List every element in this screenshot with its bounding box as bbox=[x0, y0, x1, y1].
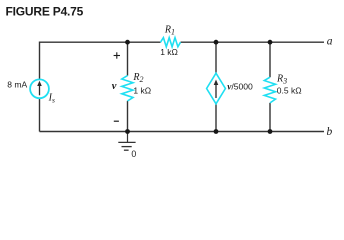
node: junction dot bottom of dependent source branch bbox=[214, 129, 219, 134]
wire: R3 branch upper segment bbox=[269, 42, 271, 77]
dependent current source v/5000 (diamond with up arrow) bbox=[207, 73, 226, 104]
resistor R1 (zigzag in top wire) bbox=[161, 38, 181, 47]
current source Is (8 mA), circle with up arrow bbox=[30, 79, 49, 98]
wire: R2 branch upper segment bbox=[127, 42, 129, 75]
svg-text:FIGURE P4.75: FIGURE P4.75 bbox=[6, 5, 84, 19]
node: junction dot bottom of R2 branch (ground tie) bbox=[125, 129, 130, 134]
label + (voltage polarity plus) bbox=[114, 52, 120, 58]
resistor R2 (vertical zigzag) bbox=[122, 76, 133, 101]
svg-text:v/5000: v/5000 bbox=[227, 81, 253, 92]
wire: top-left segment (top node from left corner to R1) bbox=[40, 42, 161, 131]
svg-text:v: v bbox=[112, 81, 117, 92]
svg-text:Is: Is bbox=[48, 92, 55, 104]
svg-text:1 kΩ: 1 kΩ bbox=[133, 85, 151, 95]
resistor R3 (vertical zigzag) bbox=[264, 77, 275, 103]
svg-text:0: 0 bbox=[131, 149, 136, 159]
svg-text:0.5 kΩ: 0.5 kΩ bbox=[277, 85, 302, 95]
svg-text:b: b bbox=[327, 126, 333, 138]
svg-text:a: a bbox=[327, 36, 333, 48]
wire: bottom (node b rail) bbox=[40, 131, 325, 133]
ground symbol at node 0 bbox=[118, 132, 135, 151]
wire: top-right segment (R1 to terminal a) bbox=[181, 41, 325, 43]
wire: R2 branch lower segment bbox=[127, 101, 129, 132]
node: junction dot top of dependent source branch bbox=[214, 40, 219, 45]
node: junction dot bottom of R3 branch bbox=[268, 129, 273, 134]
svg-text:R2: R2 bbox=[132, 72, 143, 84]
wire: dependent-source branch upper segment bbox=[215, 42, 217, 74]
wire: R3 branch lower segment bbox=[269, 103, 271, 132]
svg-text:1 kΩ: 1 kΩ bbox=[160, 47, 178, 57]
wire: dependent-source branch lower segment bbox=[215, 104, 217, 132]
svg-text:8 mA: 8 mA bbox=[7, 80, 27, 90]
node: junction dot top of R3 branch bbox=[268, 40, 273, 45]
label - (voltage polarity minus) bbox=[114, 120, 119, 122]
node: junction dot top of R2 branch bbox=[125, 40, 130, 45]
svg-text:R1: R1 bbox=[164, 25, 175, 37]
svg-text:R3: R3 bbox=[276, 73, 287, 85]
